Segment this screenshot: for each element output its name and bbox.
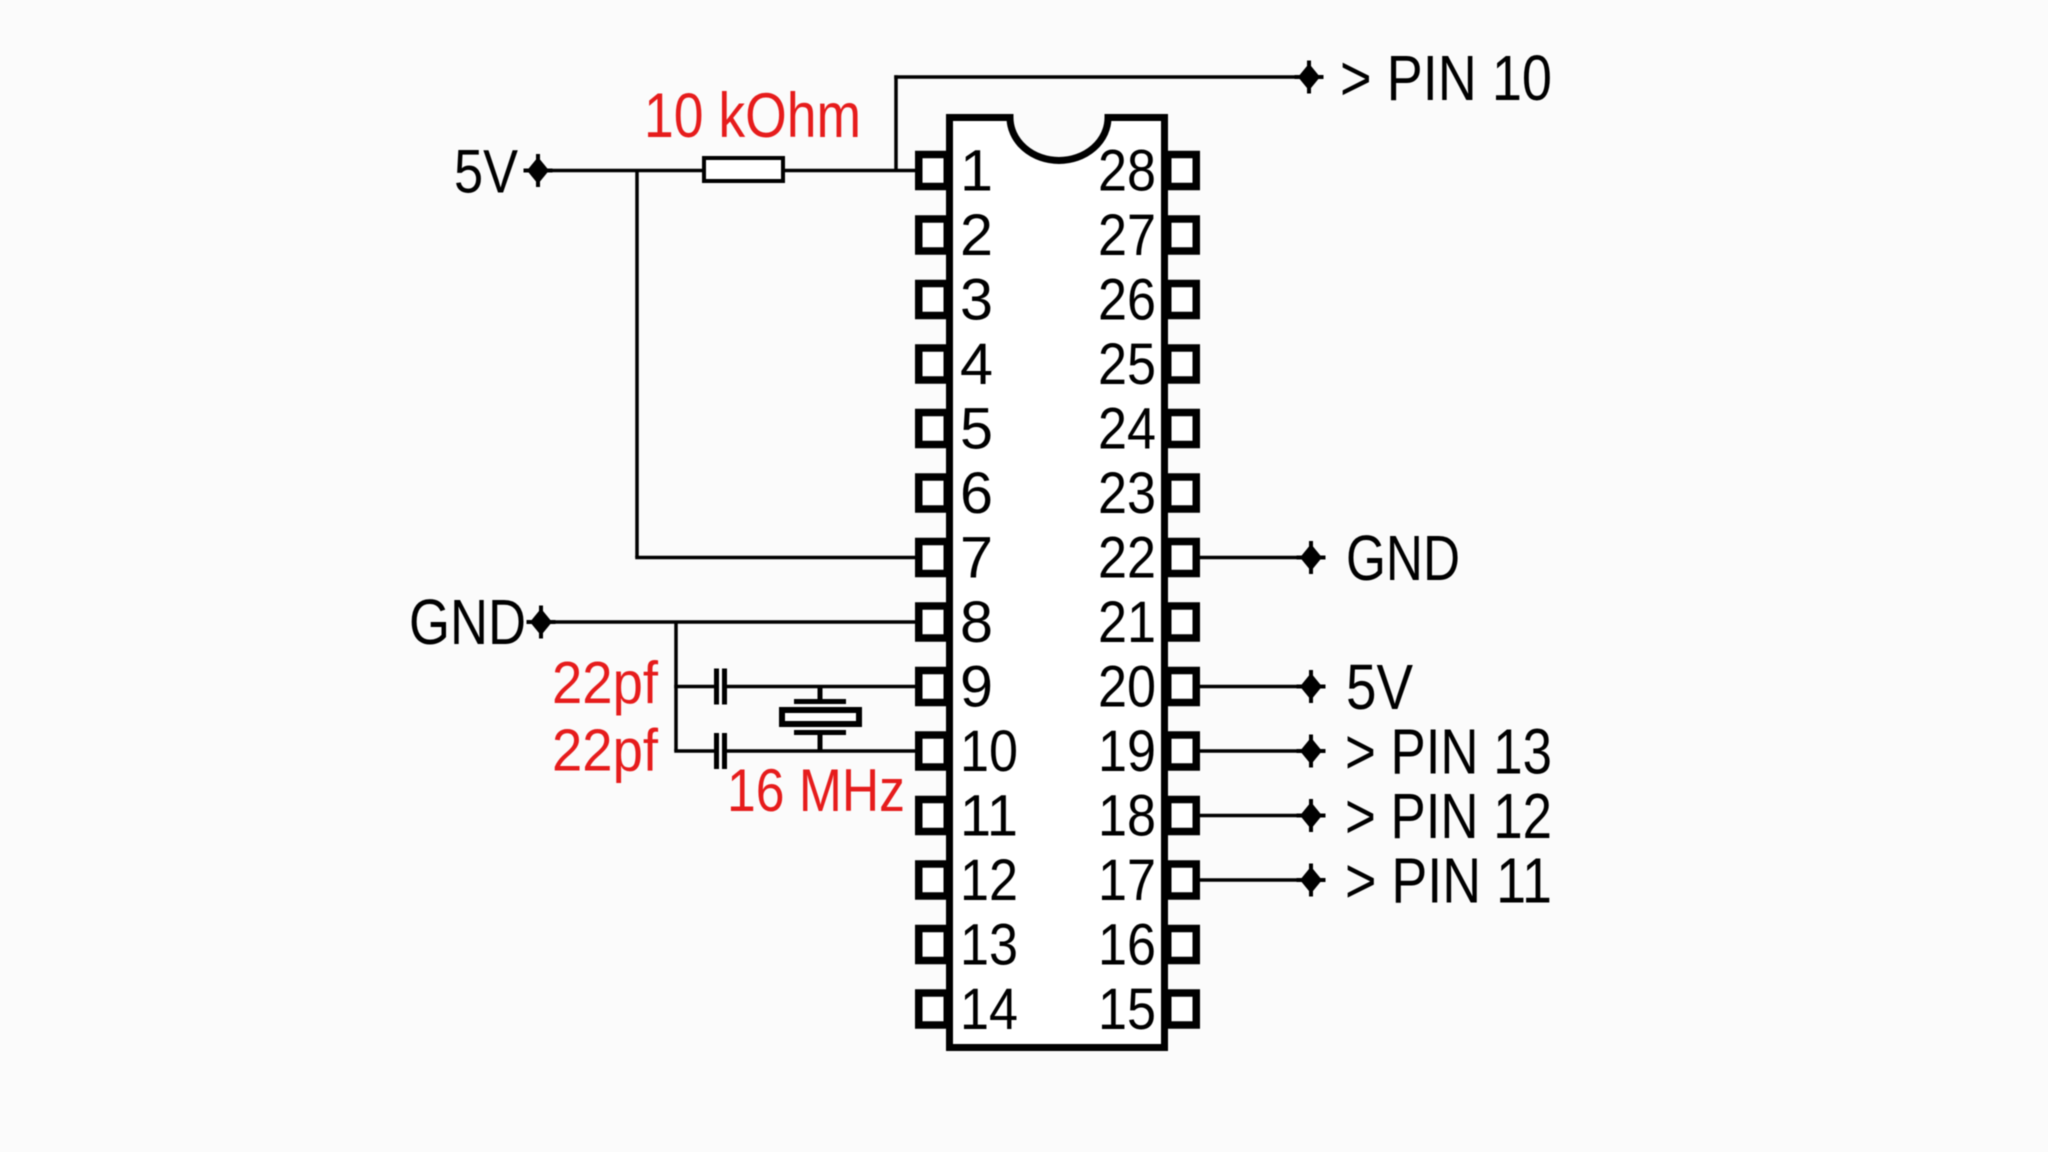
svg-text:18: 18 bbox=[1098, 784, 1156, 849]
svg-text:> PIN 11: > PIN 11 bbox=[1345, 845, 1552, 917]
svg-text:1: 1 bbox=[960, 139, 993, 204]
wire pin 20 to 5V terminal bbox=[1196, 685, 1302, 689]
pin 15 pad bbox=[1168, 993, 1197, 1025]
wire horizontal to > PIN 10 terminal bbox=[894, 75, 1300, 79]
pin 24 pad bbox=[1168, 413, 1197, 445]
pin 28 pad bbox=[1168, 155, 1197, 187]
wire capacitor C1 to pin 9 bbox=[727, 685, 918, 689]
pin 10 pad bbox=[919, 735, 948, 767]
wire capacitor C2 to pin 10 bbox=[727, 749, 918, 753]
svg-text:15: 15 bbox=[1098, 977, 1156, 1042]
svg-text:5V: 5V bbox=[454, 138, 518, 206]
svg-text:19: 19 bbox=[1098, 719, 1156, 784]
pin 26 pad bbox=[1168, 284, 1197, 316]
wire pin 19 to PIN 13 terminal bbox=[1196, 749, 1302, 753]
pin 11 pad bbox=[919, 800, 948, 832]
pin 7 pad bbox=[919, 542, 948, 574]
svg-text:27: 27 bbox=[1098, 203, 1156, 268]
svg-text:17: 17 bbox=[1098, 848, 1156, 913]
svg-text:6: 6 bbox=[960, 461, 993, 526]
capacitor C2 22pf wire from GND branch bbox=[674, 749, 714, 753]
svg-text:25: 25 bbox=[1098, 332, 1156, 397]
svg-text:20: 20 bbox=[1098, 655, 1156, 720]
IC body U1 (28-pin DIP outline with notch) bbox=[950, 118, 1165, 1048]
pin 25 pad bbox=[1168, 348, 1197, 380]
svg-text:GND: GND bbox=[409, 586, 526, 658]
crystal X1 bottom plate bbox=[794, 730, 846, 735]
wire GND branch vertical down to capacitors bbox=[674, 622, 678, 751]
svg-text:14: 14 bbox=[960, 977, 1018, 1042]
svg-text:22: 22 bbox=[1098, 526, 1156, 591]
svg-text:21: 21 bbox=[1098, 590, 1156, 655]
svg-text:5: 5 bbox=[960, 397, 993, 462]
wire pin 18 to PIN 12 terminal bbox=[1196, 814, 1302, 818]
svg-text:10 kOhm: 10 kOhm bbox=[644, 81, 861, 151]
pin 19 pad bbox=[1168, 735, 1197, 767]
pin 9 pad bbox=[919, 671, 948, 703]
svg-text:10: 10 bbox=[960, 719, 1018, 784]
pin 21 pad bbox=[1168, 606, 1197, 638]
wire pin 17 to PIN 11 terminal bbox=[1196, 878, 1302, 882]
wire pin 22 to GND terminal bbox=[1196, 556, 1302, 560]
wire GND to pin 8 bbox=[551, 620, 918, 624]
pin 23 pad bbox=[1168, 477, 1197, 509]
svg-text:5V: 5V bbox=[1346, 651, 1413, 723]
svg-text:> PIN 13: > PIN 13 bbox=[1345, 716, 1552, 788]
svg-text:9: 9 bbox=[960, 655, 993, 720]
capacitor C1 22pf plates bbox=[714, 669, 719, 705]
node > PIN 10 diamond terminal bbox=[1298, 64, 1320, 91]
pin 27 pad bbox=[1168, 219, 1197, 251]
capacitor C2 22pf plates bbox=[714, 733, 719, 769]
svg-text:11: 11 bbox=[960, 784, 1018, 849]
pin 5 pad bbox=[919, 413, 948, 445]
svg-text:16 MHz: 16 MHz bbox=[727, 757, 905, 824]
pin 14 pad bbox=[919, 993, 948, 1025]
pin 18 pad bbox=[1168, 800, 1197, 832]
node 5V (left) diamond terminal bbox=[527, 157, 549, 184]
capacitor C1 22pf wire from GND branch bbox=[674, 685, 714, 689]
wire 5V branch to pin 7 bbox=[635, 556, 918, 560]
pin 13 pad bbox=[919, 929, 948, 961]
svg-text:22pf: 22pf bbox=[552, 718, 659, 784]
node > PIN 12 diamond terminal bbox=[1300, 802, 1322, 829]
wire 5V to resistor R1 bbox=[548, 169, 704, 173]
svg-text:8: 8 bbox=[960, 590, 993, 655]
svg-text:3: 3 bbox=[960, 268, 993, 333]
svg-text:> PIN 10: > PIN 10 bbox=[1340, 42, 1552, 114]
pin 2 pad bbox=[919, 219, 948, 251]
node GND (right) diamond terminal bbox=[1300, 544, 1322, 571]
svg-text:2: 2 bbox=[960, 203, 993, 268]
svg-text:26: 26 bbox=[1098, 268, 1156, 333]
crystal X1 top plate bbox=[794, 699, 846, 704]
resistor R1 10 kOhm body bbox=[704, 158, 783, 181]
node > PIN 13 diamond terminal bbox=[1300, 738, 1322, 765]
pin 22 pad bbox=[1168, 542, 1197, 574]
svg-text:GND: GND bbox=[1346, 522, 1460, 594]
wire resistor R1 to pin 1 bbox=[785, 169, 918, 173]
pin 3 pad bbox=[919, 284, 948, 316]
pin 17 pad bbox=[1168, 864, 1197, 896]
wire riser from pin 1 net up to PIN 10 line bbox=[894, 75, 898, 170]
svg-text:28: 28 bbox=[1098, 139, 1156, 204]
wire junction 5V branch vertical down to pin 7 row bbox=[635, 171, 639, 558]
svg-text:12: 12 bbox=[960, 848, 1018, 913]
crystal X1 stub to pin 10 net bbox=[818, 735, 823, 751]
svg-text:22pf: 22pf bbox=[552, 650, 659, 716]
svg-text:4: 4 bbox=[960, 332, 993, 397]
crystal X1 body bbox=[782, 710, 859, 724]
node 5V (right) diamond terminal bbox=[1300, 673, 1322, 700]
svg-text:16: 16 bbox=[1098, 913, 1156, 978]
svg-text:> PIN 12: > PIN 12 bbox=[1345, 780, 1552, 852]
pin 16 pad bbox=[1168, 929, 1197, 961]
svg-text:13: 13 bbox=[960, 913, 1018, 978]
pin 4 pad bbox=[919, 348, 948, 380]
pin 1 pad bbox=[919, 155, 948, 187]
svg-text:23: 23 bbox=[1098, 461, 1156, 526]
node > PIN 11 diamond terminal bbox=[1300, 867, 1322, 894]
pin 6 pad bbox=[919, 477, 948, 509]
pin 20 pad bbox=[1168, 671, 1197, 703]
svg-text:7: 7 bbox=[960, 526, 993, 591]
crystal X1 stub from pin 9 net bbox=[818, 687, 823, 701]
svg-text:24: 24 bbox=[1098, 397, 1156, 462]
pin 12 pad bbox=[919, 864, 948, 896]
node GND (left) diamond terminal bbox=[530, 609, 552, 636]
pin 8 pad bbox=[919, 606, 948, 638]
